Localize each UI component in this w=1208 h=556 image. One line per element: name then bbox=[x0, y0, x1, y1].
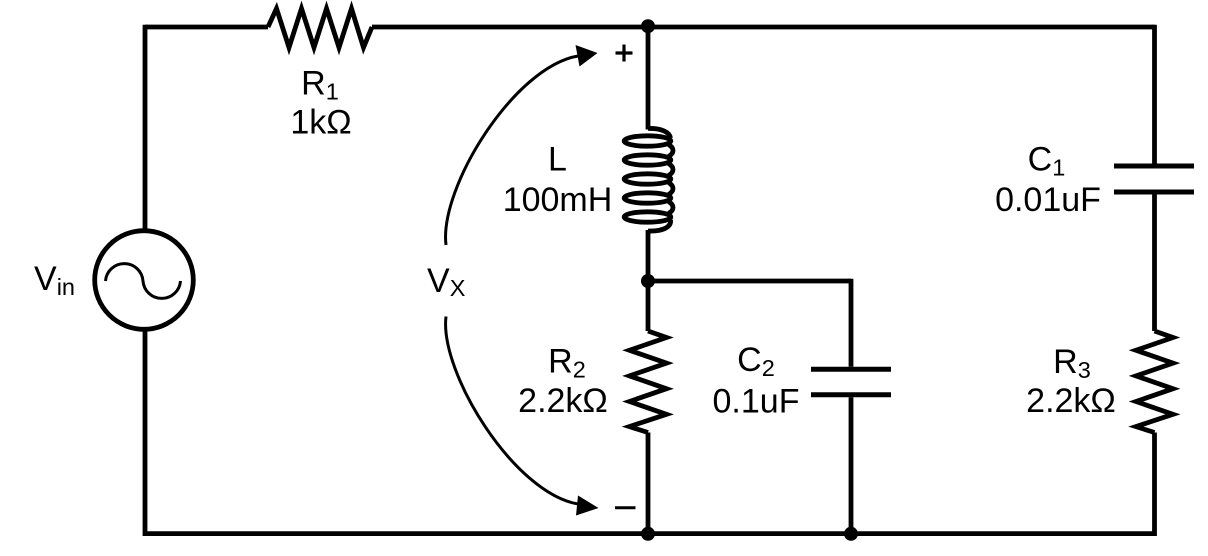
label Vx bbox=[427, 262, 466, 301]
svg-text:1kΩ: 1kΩ bbox=[290, 104, 351, 142]
svg-text:100mH: 100mH bbox=[503, 181, 613, 219]
svg-text:VX: VX bbox=[427, 262, 466, 301]
svg-text:2.2kΩ: 2.2kΩ bbox=[1026, 382, 1116, 420]
svg-text:Vin: Vin bbox=[34, 260, 75, 300]
node junction dot bottom right (C2 branch) bbox=[844, 527, 858, 541]
svg-text:L: L bbox=[548, 141, 567, 179]
resistor R2 bbox=[630, 331, 667, 433]
label L designator bbox=[548, 141, 567, 179]
node junction dot bottom middle bbox=[641, 527, 655, 541]
Vx arrowhead bottom (points to −) bbox=[576, 496, 599, 516]
label C2 designator bbox=[737, 341, 775, 381]
capacitor C1 bbox=[1114, 166, 1194, 192]
wire left vertical lower (Vin bottom to bottom-left corner) bbox=[143, 329, 148, 536]
node junction dot top (middle branch) bbox=[641, 19, 655, 33]
svg-text:0.1uF: 0.1uF bbox=[713, 383, 800, 421]
Vx measurement arc upper segment bbox=[446, 56, 578, 245]
svg-text:R3: R3 bbox=[1053, 343, 1091, 383]
voltage source Vin sine symbol bbox=[106, 264, 181, 299]
wire middle branch upper (top node down to inductor) bbox=[646, 27, 651, 130]
label R1 value "1kΩ" bbox=[290, 104, 351, 142]
wire right vertical upper (top-right corner to C1) bbox=[1152, 25, 1157, 164]
inductor L coil bbox=[624, 128, 673, 231]
svg-text:R2: R2 bbox=[548, 343, 586, 383]
Vx arrowhead top (points to +) bbox=[576, 45, 598, 67]
svg-text:R1: R1 bbox=[301, 65, 339, 105]
wire left vertical upper (top corner down to Vin circle) bbox=[143, 25, 148, 230]
plus sign (+) polarity mark bbox=[616, 45, 633, 62]
label R2 value "2.2kΩ" bbox=[518, 382, 608, 420]
Vx measurement arc lower segment bbox=[446, 317, 578, 505]
wire top-left horizontal (Vin top to R1 left) bbox=[145, 25, 268, 30]
resistor R1 bbox=[268, 9, 372, 48]
label R3 value "2.2kΩ" bbox=[1026, 382, 1116, 420]
node junction dot middle (L / R2 / C2 node) bbox=[641, 274, 655, 288]
label C1 designator bbox=[1028, 141, 1066, 181]
svg-text:2.2kΩ: 2.2kΩ bbox=[518, 382, 608, 420]
label R1 designator bbox=[301, 65, 339, 105]
label R3 designator bbox=[1053, 343, 1091, 383]
wire middle node to C2 branch horizontal bbox=[646, 279, 851, 284]
svg-text:C2: C2 bbox=[737, 341, 775, 381]
svg-text:C1: C1 bbox=[1028, 141, 1066, 181]
capacitor C2 bbox=[811, 369, 891, 395]
label Vin bbox=[34, 260, 75, 300]
wire right vertical middle (C1 to R3) bbox=[1152, 195, 1157, 332]
wire right vertical lower (R3 to bottom-right corner) bbox=[1152, 433, 1157, 537]
minus sign (−) polarity mark bbox=[615, 506, 636, 509]
label R2 designator bbox=[548, 343, 586, 383]
label C1 value "0.01uF" bbox=[995, 181, 1101, 219]
label C2 value "0.1uF" bbox=[713, 383, 800, 421]
wire R2 bottom to bottom node bbox=[646, 433, 651, 534]
wire top horizontal (R1 right to top-right corner) bbox=[372, 25, 1155, 30]
wire C2 branch upper vertical bbox=[849, 279, 854, 367]
voltage source Vin (AC source circle) bbox=[95, 231, 194, 330]
wire C2 bottom vertical bbox=[849, 397, 854, 533]
wire bottom horizontal bbox=[143, 531, 1155, 536]
wire middle node to R2 bbox=[646, 281, 651, 331]
wire middle branch (inductor bottom to middle node) bbox=[646, 230, 651, 281]
svg-text:0.01uF: 0.01uF bbox=[995, 181, 1101, 219]
resistor R3 bbox=[1136, 331, 1173, 433]
label L value "100mH" bbox=[503, 181, 613, 219]
